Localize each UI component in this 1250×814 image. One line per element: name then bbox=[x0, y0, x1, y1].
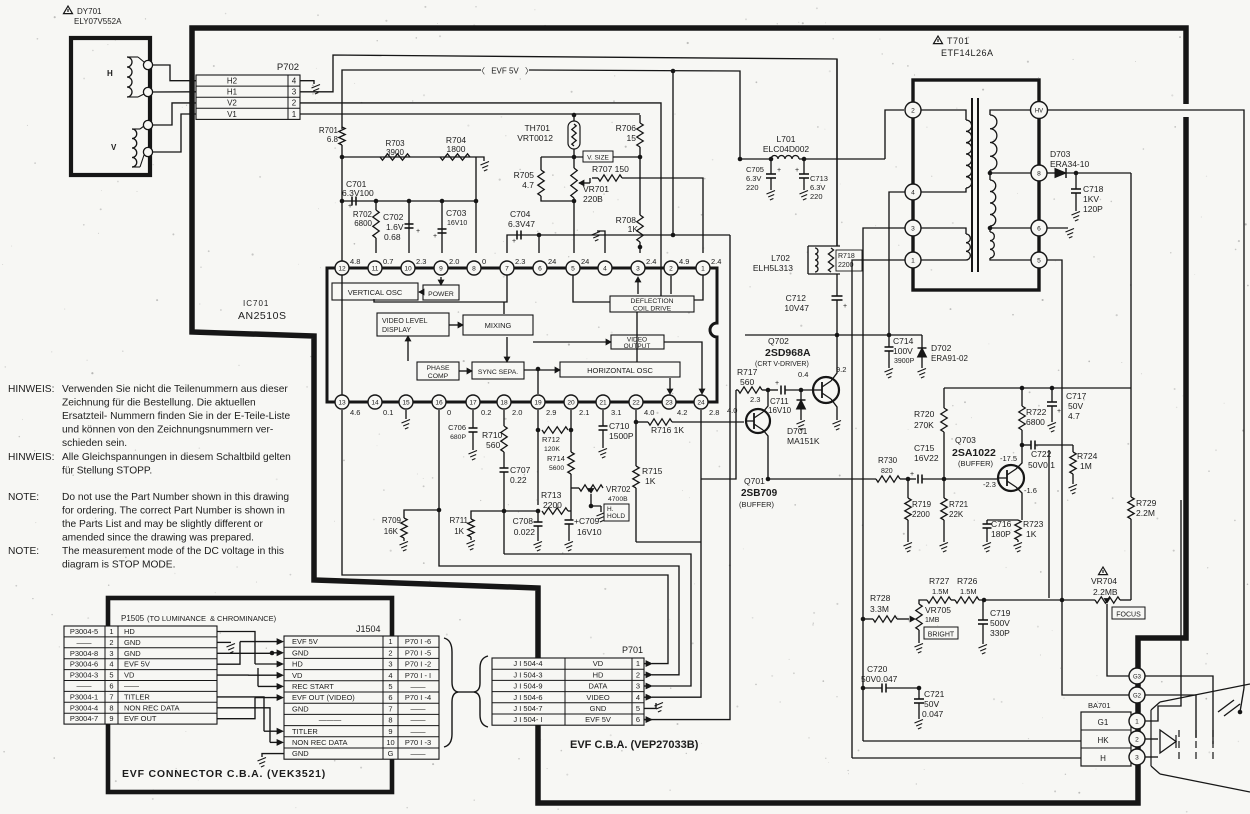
svg-text:R721: R721 bbox=[949, 500, 969, 509]
capacitor C714 bbox=[887, 333, 892, 338]
svg-text:6800: 6800 bbox=[354, 219, 372, 228]
svg-text:+C709: +C709 bbox=[574, 516, 600, 526]
svg-text:0: 0 bbox=[482, 257, 486, 266]
svg-text:MA151K: MA151K bbox=[787, 436, 820, 446]
wire deflection to pin2 bbox=[670, 276, 672, 294]
wire EVF 5V rail bbox=[342, 70, 481, 129]
node junction pin18 bbox=[502, 509, 507, 514]
svg-text:2.0: 2.0 bbox=[449, 257, 459, 266]
label H.HOLD box bbox=[604, 504, 629, 521]
wire pin8 stub bbox=[475, 201, 477, 253]
resistor R714 bbox=[570, 410, 572, 452]
svg-text:NON REC DATA: NON REC DATA bbox=[292, 738, 348, 747]
wire R701 to node bbox=[341, 145, 343, 261]
svg-text:5: 5 bbox=[1037, 257, 1041, 264]
svg-text:3900: 3900 bbox=[386, 148, 404, 157]
svg-text:1K: 1K bbox=[454, 527, 464, 536]
svg-text:HV: HV bbox=[1035, 108, 1043, 114]
EVF connector board outline VEK3521 bbox=[108, 598, 392, 792]
svg-text:0.2: 0.2 bbox=[481, 408, 491, 417]
svg-text:H1: H1 bbox=[227, 88, 238, 97]
pin 9 IC701 top bbox=[434, 261, 448, 275]
capacitor C716 bbox=[987, 519, 1018, 521]
svg-text:〉: 〉 bbox=[525, 67, 533, 76]
svg-text:4.6: 4.6 bbox=[350, 408, 360, 417]
svg-text:C705: C705 bbox=[746, 165, 764, 174]
svg-text:P3004-6: P3004-6 bbox=[70, 660, 98, 669]
svg-text:(BUFFER): (BUFFER) bbox=[739, 500, 774, 509]
wire Q703 emitter up bbox=[1016, 445, 1022, 469]
svg-text:P3004-1: P3004-1 bbox=[70, 692, 98, 701]
svg-text:6: 6 bbox=[388, 693, 392, 702]
svg-text:GND: GND bbox=[590, 704, 607, 713]
svg-text:EVF 5V: EVF 5V bbox=[292, 637, 318, 646]
svg-text:23: 23 bbox=[665, 399, 673, 406]
pin 5 IC701 top bbox=[566, 261, 580, 275]
CRT funnel bottom bbox=[1160, 774, 1250, 792]
resistor R702 bbox=[373, 210, 379, 238]
wire node line y201 bbox=[342, 200, 476, 202]
svg-text:P70 I -5: P70 I -5 bbox=[405, 648, 431, 657]
svg-text:1: 1 bbox=[701, 265, 705, 272]
svg-text:VERTICAL OSC: VERTICAL OSC bbox=[348, 288, 403, 297]
svg-text:(TO LUMINANCE: (TO LUMINANCE bbox=[147, 614, 206, 623]
wire GND P1505-3 to J1504-2 bbox=[217, 652, 272, 655]
svg-text:ELY07V552A: ELY07V552A bbox=[74, 17, 122, 26]
wire Q701 collector down bbox=[763, 430, 768, 479]
node pin22 R716 bbox=[634, 420, 639, 425]
svg-text:TITLER: TITLER bbox=[292, 727, 318, 736]
svg-text:R715: R715 bbox=[642, 466, 663, 476]
svg-text:2200: 2200 bbox=[912, 510, 930, 519]
transistor Q701 bbox=[746, 409, 770, 433]
svg-text:1: 1 bbox=[911, 257, 915, 264]
svg-text:für Stellung STOPP.: für Stellung STOPP. bbox=[62, 466, 152, 477]
svg-text:+: + bbox=[433, 233, 437, 240]
svg-text:C702: C702 bbox=[383, 212, 404, 222]
svg-text:HOLD: HOLD bbox=[607, 513, 625, 520]
terminal G2 bbox=[1129, 687, 1145, 703]
ground pin4 area bbox=[597, 231, 605, 253]
svg-text:180P: 180P bbox=[991, 529, 1011, 539]
pin 3 IC701 top bbox=[631, 261, 645, 275]
svg-text:10V47: 10V47 bbox=[784, 303, 809, 313]
potentiometer VR705 bbox=[916, 604, 922, 630]
svg-text:R729: R729 bbox=[1136, 498, 1157, 508]
wire HV output bbox=[1048, 110, 1244, 688]
svg-text:R720: R720 bbox=[914, 409, 935, 419]
svg-text:R706: R706 bbox=[616, 123, 637, 133]
capacitor C709 bbox=[570, 474, 572, 520]
svg-text:680P: 680P bbox=[450, 434, 466, 441]
svg-text:C714: C714 bbox=[893, 336, 914, 346]
CRT electrode dashed 1 bbox=[1178, 730, 1180, 762]
potentiometer VR701 bbox=[571, 168, 577, 198]
svg-text:diagram is STOP MODE.: diagram is STOP MODE. bbox=[62, 560, 175, 571]
svg-text:120P: 120P bbox=[1083, 204, 1103, 214]
svg-text:NOTE:: NOTE: bbox=[8, 546, 39, 557]
svg-text:C704: C704 bbox=[510, 209, 531, 219]
svg-text:CHROMINANCE): CHROMINANCE) bbox=[217, 614, 277, 623]
svg-text:G: G bbox=[388, 749, 394, 758]
svg-text:——: —— bbox=[411, 716, 427, 725]
capacitor C710 bbox=[602, 410, 604, 426]
svg-text:BA701: BA701 bbox=[1088, 701, 1111, 710]
svg-text:C715: C715 bbox=[914, 443, 935, 453]
svg-text:0.022: 0.022 bbox=[514, 527, 536, 537]
svg-text:12: 12 bbox=[338, 265, 346, 272]
svg-text:1K: 1K bbox=[645, 476, 656, 486]
wire MIXING to SYNC SEPA bbox=[506, 337, 508, 357]
svg-text:——: —— bbox=[411, 749, 427, 758]
svg-text:——: —— bbox=[124, 682, 140, 691]
wire Q701 emitter up bbox=[763, 390, 768, 412]
svg-text:4: 4 bbox=[636, 693, 640, 702]
svg-text:J I 504-9: J I 504-9 bbox=[513, 682, 542, 691]
svg-text:D703: D703 bbox=[1050, 149, 1071, 159]
svg-text:Q702: Q702 bbox=[768, 336, 789, 346]
capacitor C707 bbox=[503, 452, 505, 468]
pin 3 BA701 bbox=[1129, 749, 1145, 765]
IC IC701 AN2510S outline bbox=[327, 268, 717, 402]
svg-text:Q703: Q703 bbox=[955, 435, 976, 445]
svg-text:R723: R723 bbox=[1023, 519, 1044, 529]
pin 7 IC701 top bbox=[500, 261, 514, 275]
svg-text:EVF CONNECTOR C.B.A. (VEK352: EVF CONNECTOR C.B.A. (VEK3521) bbox=[122, 768, 326, 780]
svg-text:P70 I -6: P70 I -6 bbox=[405, 637, 431, 646]
svg-text:FOCUS: FOCUS bbox=[1116, 612, 1141, 619]
svg-text:C717: C717 bbox=[1066, 391, 1087, 401]
capacitor C721 bbox=[917, 686, 922, 691]
block PHASE COMP bbox=[417, 362, 459, 380]
wire V2 net (P702-2 to deflection coil drive) bbox=[300, 103, 661, 296]
svg-text:8: 8 bbox=[109, 703, 113, 712]
pin 14 IC701 bottom bbox=[368, 395, 382, 409]
svg-text:3: 3 bbox=[636, 265, 640, 272]
svg-text:4: 4 bbox=[603, 265, 607, 272]
wire T701 pin5 to G2 feed bbox=[1047, 260, 1062, 600]
svg-text:SYNC SEPA.: SYNC SEPA. bbox=[478, 369, 518, 376]
resistor R712 bbox=[542, 427, 568, 433]
svg-text:50V0.047: 50V0.047 bbox=[861, 674, 898, 684]
svg-text:HD: HD bbox=[593, 670, 604, 679]
svg-text:TITLER: TITLER bbox=[124, 692, 150, 701]
svg-text:50V: 50V bbox=[924, 699, 939, 709]
svg-text:NOTE:: NOTE: bbox=[8, 492, 39, 503]
svg-text:2SD968A: 2SD968A bbox=[765, 347, 811, 359]
svg-text:HINWEIS:: HINWEIS: bbox=[8, 452, 54, 463]
svg-text:4.0: 4.0 bbox=[727, 406, 737, 415]
svg-text:——: —— bbox=[411, 704, 427, 713]
wire R704 to C701 node bbox=[475, 157, 477, 201]
svg-text:2: 2 bbox=[669, 265, 673, 272]
svg-text:220B: 220B bbox=[583, 194, 603, 204]
svg-text:V1: V1 bbox=[227, 110, 237, 119]
brace J1504 output bbox=[444, 638, 458, 747]
svg-text:24: 24 bbox=[581, 257, 589, 266]
wire HV block vertical bbox=[1130, 173, 1132, 388]
svg-text:20: 20 bbox=[567, 399, 575, 406]
wire yoke to P702 V1 bbox=[153, 114, 196, 152]
ground stub R704 right bbox=[476, 157, 484, 161]
svg-text:R713: R713 bbox=[541, 490, 562, 500]
svg-text:+: + bbox=[512, 238, 516, 245]
wire node line y157 bbox=[342, 156, 476, 158]
svg-text:AN2510S: AN2510S bbox=[238, 310, 286, 322]
svg-text:P3004-8: P3004-8 bbox=[70, 649, 98, 658]
svg-text:1: 1 bbox=[388, 637, 392, 646]
pin 21 IC701 bottom bbox=[596, 395, 610, 409]
CRT funnel top bbox=[1160, 684, 1250, 702]
svg-text:220: 220 bbox=[810, 192, 823, 201]
wire T701 pin3 down heater bbox=[863, 228, 905, 741]
svg-text:R701: R701 bbox=[319, 126, 339, 135]
wire HD P1505-1 to J1504-3 bbox=[217, 632, 255, 665]
ground pin15 bbox=[405, 410, 407, 419]
wire bus pin16 HD to P701-2 bbox=[439, 410, 679, 675]
svg-text:R716 1K: R716 1K bbox=[651, 425, 684, 435]
transformer T701 label bbox=[934, 36, 943, 44]
svg-text:VIDEO: VIDEO bbox=[586, 693, 610, 702]
wire G2 right bbox=[1145, 695, 1196, 738]
block VERTICAL OSC bbox=[332, 283, 418, 300]
pin 15 IC701 bottom bbox=[399, 395, 413, 409]
svg-text:Alle Gleichspannungen in diese: Alle Gleichspannungen in diesem Schaltbi… bbox=[62, 452, 291, 463]
svg-text:R730: R730 bbox=[878, 456, 898, 465]
svg-text:R711: R711 bbox=[449, 516, 468, 525]
svg-text:2.3: 2.3 bbox=[515, 257, 525, 266]
svg-text:GND: GND bbox=[292, 648, 309, 657]
svg-text:21: 21 bbox=[599, 399, 607, 406]
svg-text:14: 14 bbox=[371, 399, 379, 406]
svg-text:1800: 1800 bbox=[447, 144, 466, 154]
svg-text:2SB709: 2SB709 bbox=[741, 488, 778, 499]
wire pin7 line to MIXING bbox=[503, 302, 505, 314]
wire V1 net (P702-1 to TH701/R706) bbox=[300, 113, 640, 115]
svg-text:6.3V: 6.3V bbox=[746, 174, 761, 183]
wire pin9 to POWER bbox=[440, 277, 442, 281]
svg-text:VR702: VR702 bbox=[606, 485, 631, 494]
svg-text:3: 3 bbox=[636, 682, 640, 691]
wire H1 chain vertical bbox=[836, 59, 838, 246]
node inter-table junction bbox=[270, 651, 275, 656]
svg-text:19: 19 bbox=[534, 399, 542, 406]
svg-text:1.5M: 1.5M bbox=[960, 587, 977, 596]
svg-text:GND: GND bbox=[124, 638, 141, 647]
svg-text:——: —— bbox=[411, 682, 427, 691]
svg-text:6: 6 bbox=[636, 715, 640, 724]
wire TITLER P1505-7 to J1504-9 bbox=[217, 697, 264, 731]
svg-text:500V: 500V bbox=[990, 618, 1010, 628]
pin 3 T701 bbox=[905, 220, 921, 236]
svg-text:VD: VD bbox=[124, 671, 135, 680]
svg-text:-2.3: -2.3 bbox=[983, 480, 996, 489]
pin 16 IC701 bottom bbox=[432, 395, 446, 409]
CRT neck outline bbox=[1150, 710, 1152, 766]
node R701/R703 bbox=[340, 155, 345, 160]
svg-text:270K: 270K bbox=[914, 420, 934, 430]
svg-text:4.7: 4.7 bbox=[522, 180, 534, 190]
svg-text:+: + bbox=[416, 228, 420, 235]
svg-text:HINWEIS:: HINWEIS: bbox=[8, 384, 54, 395]
pin 6 IC701 top bbox=[533, 261, 547, 275]
svg-text:4.2: 4.2 bbox=[677, 408, 687, 417]
node EVF 5V junction bbox=[671, 69, 676, 74]
wire H to gun bbox=[1145, 756, 1158, 758]
svg-text:+: + bbox=[1057, 408, 1061, 415]
svg-text:(CRT V-DRIVER): (CRT V-DRIVER) bbox=[755, 361, 809, 368]
svg-text:17: 17 bbox=[469, 399, 477, 406]
svg-text:2200: 2200 bbox=[543, 500, 562, 510]
svg-text:Ersatzteil- Nummern finden Sie: Ersatzteil- Nummern finden Sie in der E-… bbox=[62, 411, 291, 422]
wire yoke to P702 H1 bbox=[153, 91, 196, 93]
svg-text:2: 2 bbox=[1135, 736, 1139, 743]
wire HV block left edge bbox=[1048, 450, 1050, 598]
arrow P701 row 6 bbox=[644, 719, 646, 721]
svg-text:9: 9 bbox=[388, 727, 392, 736]
arrow P701 row 2 bbox=[644, 674, 646, 676]
wire G1 net bbox=[1145, 500, 1181, 721]
potentiometer VR704 bbox=[1099, 567, 1108, 575]
svg-text:16K: 16K bbox=[384, 527, 399, 536]
svg-text:7: 7 bbox=[505, 265, 509, 272]
pin 11 IC701 top bbox=[368, 261, 382, 275]
svg-text:6.3V100: 6.3V100 bbox=[342, 188, 374, 198]
svg-text:P3004-7: P3004-7 bbox=[70, 714, 98, 723]
pin 22 IC701 bottom bbox=[629, 395, 643, 409]
svg-text:3900P: 3900P bbox=[894, 358, 915, 365]
svg-text:5: 5 bbox=[571, 265, 575, 272]
svg-text:HD: HD bbox=[124, 627, 135, 636]
label BRIGHT box bbox=[924, 627, 958, 639]
svg-text:H: H bbox=[107, 69, 113, 78]
svg-text:+: + bbox=[348, 203, 352, 210]
wire yoke to P702 V2 bbox=[153, 103, 196, 125]
svg-text:50V0.1: 50V0.1 bbox=[1028, 460, 1055, 470]
svg-text:H: H bbox=[1100, 754, 1106, 763]
svg-text:amended since the drawing was: amended since the drawing was prepared. bbox=[62, 533, 254, 544]
svg-text:2.1: 2.1 bbox=[579, 408, 589, 417]
pin 4 IC701 top bbox=[598, 261, 612, 275]
svg-text:EVF 5V: EVF 5V bbox=[491, 67, 519, 76]
wire horiz osc to deflection bbox=[636, 312, 638, 362]
wire J1504-G ground bbox=[262, 754, 284, 757]
wire T701 pin6 to ground bbox=[1047, 227, 1068, 229]
svg-text:R714: R714 bbox=[547, 454, 565, 463]
svg-text:TH701: TH701 bbox=[524, 123, 550, 133]
svg-text:P3004-3: P3004-3 bbox=[70, 671, 98, 680]
pin 2 T701 bbox=[905, 102, 921, 118]
node C712 bottom bbox=[835, 333, 840, 338]
block MIXING bbox=[463, 315, 533, 335]
wire collector rail y335 bbox=[745, 334, 922, 336]
wire pin12 internal bbox=[341, 275, 343, 395]
svg-text:4.9: 4.9 bbox=[679, 257, 689, 266]
svg-text:18: 18 bbox=[500, 399, 508, 406]
svg-text:50V: 50V bbox=[1068, 401, 1083, 411]
svg-text:2.4: 2.4 bbox=[711, 257, 721, 266]
svg-text:16V10: 16V10 bbox=[577, 527, 602, 537]
pin 2 BA701 bbox=[1129, 731, 1145, 747]
svg-text:R719: R719 bbox=[912, 500, 932, 509]
node junction pin16 bbox=[437, 508, 442, 513]
svg-text:1KV: 1KV bbox=[1083, 194, 1099, 204]
wire pin24 riser to video line bbox=[701, 390, 736, 479]
svg-text:VD: VD bbox=[292, 671, 303, 680]
svg-text:R724: R724 bbox=[1077, 451, 1098, 461]
svg-text:R717: R717 bbox=[737, 367, 758, 377]
capacitor C703 bbox=[441, 201, 443, 253]
wire H row bbox=[852, 757, 1081, 759]
arrow P701 row 3 bbox=[644, 685, 646, 687]
svg-text:R712: R712 bbox=[542, 435, 560, 444]
svg-text:P1505: P1505 bbox=[121, 614, 145, 623]
svg-text:6.3V: 6.3V bbox=[810, 183, 825, 192]
svg-text:C707: C707 bbox=[510, 465, 531, 475]
svg-text:4.0: 4.0 bbox=[644, 408, 654, 417]
svg-text:4700B: 4700B bbox=[608, 496, 628, 503]
svg-text:2.8: 2.8 bbox=[709, 408, 719, 417]
CRT electron gun bbox=[1160, 730, 1176, 753]
svg-text:7: 7 bbox=[109, 692, 113, 701]
svg-text:HD: HD bbox=[292, 660, 303, 669]
svg-text:8: 8 bbox=[1037, 170, 1041, 177]
svg-text:V: V bbox=[111, 143, 117, 152]
pin 24 IC701 bottom bbox=[694, 395, 708, 409]
svg-text:L701: L701 bbox=[777, 134, 796, 144]
block SYNC SEPA bbox=[472, 362, 524, 379]
svg-text:EVF 5V: EVF 5V bbox=[124, 660, 150, 669]
svg-text:15: 15 bbox=[402, 399, 410, 406]
svg-text:1.6V: 1.6V bbox=[386, 222, 404, 232]
svg-text:D701: D701 bbox=[787, 426, 808, 436]
ground P701 GND bbox=[655, 703, 664, 707]
svg-text:REC START: REC START bbox=[292, 682, 334, 691]
svg-text:P3004-5: P3004-5 bbox=[70, 627, 98, 636]
svg-text:1K: 1K bbox=[628, 224, 639, 234]
svg-text:15: 15 bbox=[627, 133, 637, 143]
svg-text:+: + bbox=[843, 303, 847, 310]
pin 17 IC701 bottom bbox=[466, 395, 480, 409]
svg-text:0.22: 0.22 bbox=[510, 475, 527, 485]
wire EVF5V drop to C704 bbox=[672, 71, 674, 235]
svg-text:24: 24 bbox=[548, 257, 556, 266]
wire Q703 collector down bbox=[1016, 487, 1022, 520]
svg-text:VRT0012: VRT0012 bbox=[517, 133, 553, 143]
svg-text:HK: HK bbox=[1097, 736, 1109, 745]
svg-text:0.68: 0.68 bbox=[384, 232, 401, 242]
svg-text:ERA91-02: ERA91-02 bbox=[931, 354, 968, 363]
svg-text:for ordering. The correct Part: for ordering. The correct Part Number is… bbox=[62, 506, 285, 517]
svg-text:4: 4 bbox=[109, 660, 113, 669]
node R717/C711 bbox=[766, 388, 771, 393]
svg-text:6: 6 bbox=[1037, 225, 1041, 232]
svg-text:0.4: 0.4 bbox=[798, 370, 808, 379]
svg-text:und können von den Zeichnungsn: und können von den Zeichnungsnummern ver… bbox=[62, 425, 273, 436]
wire pin1 internal bbox=[694, 275, 703, 300]
svg-text:220: 220 bbox=[746, 183, 759, 192]
resistor R729 bbox=[1128, 497, 1134, 519]
svg-text:22K: 22K bbox=[949, 510, 964, 519]
wire HK row bbox=[863, 740, 1081, 742]
coil V (yoke vertical) bbox=[132, 129, 137, 167]
svg-text:EVF OUT (VIDEO): EVF OUT (VIDEO) bbox=[292, 693, 355, 702]
svg-text:COIL DRIVE: COIL DRIVE bbox=[633, 306, 672, 313]
pin 1 BA701 bbox=[1129, 713, 1145, 729]
svg-text:L702: L702 bbox=[771, 253, 790, 263]
svg-text:POWER: POWER bbox=[428, 291, 454, 298]
svg-text:8: 8 bbox=[472, 265, 476, 272]
